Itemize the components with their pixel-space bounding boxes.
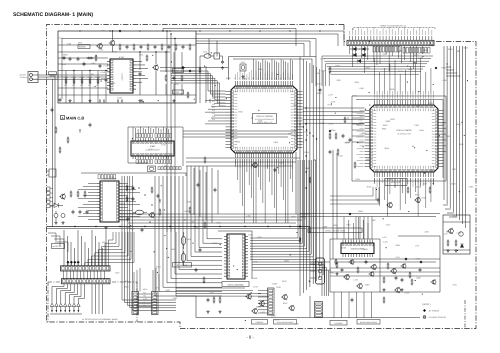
svg-text:P18: P18 [212, 115, 215, 118]
capacitor C115 [154, 45, 156, 47]
system controller IC201 (QFP) body [231, 86, 297, 153]
right bus corner into power section [443, 204, 448, 206]
svg-text:Q630: Q630 [464, 47, 469, 50]
svg-text:L478: L478 [328, 93, 332, 96]
electrolytic C502 [61, 214, 65, 218]
small connector at left border [49, 169, 56, 177]
svg-text:C645: C645 [452, 215, 457, 218]
svg-text:C304: C304 [352, 95, 357, 98]
svg-text:L127: L127 [191, 213, 195, 216]
flex connector CN702 [62, 279, 111, 284]
resistor R105 [97, 78, 99, 80]
ground [69, 99, 71, 101]
LCD driver IC401 body [131, 141, 174, 156]
bus verticals dropping from IC201 right [299, 57, 301, 296]
capacitor C114 [147, 44, 149, 46]
transistor Q609 [358, 284, 363, 289]
svg-text:D336: D336 [405, 292, 410, 295]
small part P21 [407, 187, 409, 189]
svg-text:D693: D693 [101, 29, 106, 32]
connector CN703 (vertical) [132, 292, 139, 315]
resistor R610 [336, 262, 338, 264]
svg-text:472: 472 [96, 84, 99, 87]
IC301 bottom pins [374, 172, 376, 177]
resistor R101 [65, 78, 67, 80]
capacitor C104 [139, 72, 141, 74]
small part P26 [383, 297, 385, 299]
svg-text:L470: L470 [155, 286, 159, 289]
svg-text:D268: D268 [226, 77, 231, 80]
capacitor C310 [342, 134, 344, 136]
part audio out 4 [132, 197, 134, 199]
main board boundary (dash-dot border) [47, 25, 477, 329]
IC201 top pin name labels [235, 74, 237, 80]
small part P28 [409, 272, 411, 274]
svg-text:C276: C276 [253, 286, 258, 289]
svg-text:C704: C704 [98, 48, 103, 51]
svg-text:D391: D391 [78, 42, 83, 45]
rails IC401 box to QFP2 bottom zone [186, 157, 300, 159]
svg-text:IC601 LA9200NM: IC601 LA9200NM [228, 283, 244, 286]
svg-text:R125: R125 [64, 76, 69, 79]
photo diode triangles in pickup [50, 303, 54, 306]
svg-text:R619: R619 [446, 231, 451, 234]
IC301 left pin name labels [360, 110, 364, 112]
diamond B+ marks [405, 258, 408, 261]
svg-text:R842: R842 [317, 92, 322, 95]
B+ rail wires bottom right [330, 258, 440, 260]
svg-text:Q123: Q123 [282, 280, 287, 283]
IC301 bottom pin labels [374, 178, 376, 182]
motor driver section bottom edge [196, 296, 420, 318]
svg-text:Q858: Q858 [292, 134, 297, 137]
IC401 bottom pins [132, 156, 134, 159]
ground [55, 221, 57, 223]
resistor R310 [329, 133, 331, 135]
wires audio to connector [63, 230, 65, 266]
wire verticals in tuner section [65, 71, 67, 104]
fan from mid area into CN701 [108, 232, 113, 266]
svg-text:P16: P16 [212, 109, 215, 112]
strong horizontal rail 2 [47, 228, 307, 230]
svg-text:Q455: Q455 [419, 129, 424, 132]
svg-text:R605: R605 [130, 227, 135, 230]
svg-text:L897: L897 [453, 283, 457, 286]
svg-text:C644: C644 [209, 292, 214, 295]
svg-text:D861: D861 [398, 50, 403, 53]
small part P19 [377, 198, 379, 200]
svg-text:X101: X101 [203, 51, 207, 54]
svg-text:SERVO / MOTOR DRIVE: SERVO / MOTOR DRIVE [325, 229, 346, 232]
svg-text:L842: L842 [124, 280, 128, 283]
motor section right edge [309, 296, 311, 318]
svg-text:R130: R130 [96, 76, 101, 79]
label box TP201 [173, 69, 184, 73]
CD DSP IC301 (QFP) body [370, 105, 438, 172]
small part P25 [309, 227, 311, 229]
main data bus sweep (right limb up to IC201) [250, 160, 298, 238]
svg-text:R882: R882 [320, 122, 325, 125]
servo part 6 [387, 263, 389, 265]
transistor Q611 [392, 269, 397, 274]
ground [401, 288, 403, 290]
svg-text:( NOTE ): ( NOTE ) [422, 303, 431, 306]
small part P14 [189, 207, 191, 209]
svg-text:C529: C529 [276, 286, 281, 289]
B+ power flag [299, 225, 302, 228]
svg-text:D703: D703 [271, 315, 276, 318]
B+ feed diamonds [67, 261, 70, 264]
part audio out 5 [144, 194, 145, 195]
small part P31 [199, 248, 201, 250]
capacitor C116 [161, 44, 163, 46]
IC201 bottom pins [235, 153, 237, 158]
diode D504 [362, 53, 365, 56]
bent wires QFP3 bottom to left [330, 187, 373, 196]
horizontal mid rails [120, 213, 310, 215]
svg-text:L472: L472 [253, 260, 257, 263]
capacitor C120 [189, 44, 191, 46]
small part P7 [319, 88, 321, 90]
svg-text:P17: P17 [212, 112, 215, 115]
weave rails between CN501 and IC301 [322, 55, 433, 57]
capacitor C110 [222, 60, 224, 62]
small part P27 [396, 288, 401, 293]
legend ground symbol [423, 316, 426, 319]
bus corner bottom-left [48, 233, 56, 243]
part audio out 8 [151, 204, 152, 205]
crystal X501 [136, 210, 144, 215]
svg-text:R792: R792 [80, 76, 85, 79]
IC301 left pins [365, 110, 371, 112]
servo right outline [380, 236, 440, 292]
small part P36 [79, 129, 80, 130]
audio section outline [81, 173, 186, 176]
svg-text:P11: P11 [212, 94, 215, 97]
svg-text:Q259: Q259 [279, 162, 284, 165]
small part P33 [203, 277, 205, 279]
drops from top rails to QFP2 box [208, 39, 210, 57]
IC602 top pins [342, 240, 344, 244]
svg-text:X201: X201 [241, 61, 245, 64]
B+ diamond on rail [182, 66, 185, 69]
svg-text:100: 100 [64, 84, 67, 87]
svg-text:L385: L385 [442, 79, 446, 82]
wire box around IC201 inner [233, 59, 312, 83]
svg-text:Q104: Q104 [156, 266, 161, 269]
ground [207, 310, 209, 312]
crystal X401 [148, 166, 156, 172]
small part P9 [349, 138, 351, 140]
transistor Q603 [247, 294, 252, 299]
main data bus sweep (right limb down) [252, 262, 322, 296]
B+ power flag [119, 30, 122, 33]
resistor R702 [455, 240, 457, 242]
wires pickup bottom rail [50, 313, 82, 315]
small part P5 [214, 188, 216, 190]
IC601 label box [222, 282, 249, 287]
svg-text:D531: D531 [294, 322, 299, 325]
label box loading motor [330, 321, 347, 326]
strong horizontal rail 1 [47, 226, 311, 228]
svg-text:D675: D675 [435, 134, 440, 137]
svg-text:L585: L585 [359, 87, 363, 90]
svg-text:D467: D467 [190, 220, 195, 223]
wire Q101 emitter [112, 46, 114, 52]
svg-text:D394: D394 [304, 151, 309, 154]
resistor R107 [146, 55, 148, 57]
small part P37 [89, 123, 91, 125]
servo part 5 [370, 272, 374, 276]
IC602 bottom pins [342, 254, 344, 258]
svg-text:Q563: Q563 [284, 260, 289, 263]
electrolytic C501 [54, 214, 58, 218]
part audio out 6 [151, 187, 153, 189]
svg-text:D511: D511 [102, 241, 106, 244]
wires CN703-CN704 [139, 293, 152, 295]
resistor array RA402 above IC401 [155, 134, 157, 138]
svg-text:Q569: Q569 [98, 213, 103, 216]
svg-text:R433: R433 [117, 97, 122, 100]
wire [139, 78, 141, 95]
LED D500 indicator [54, 203, 59, 208]
bus wire top rail 4 [196, 41, 310, 57]
svg-text:R599: R599 [63, 54, 68, 57]
svg-text:D234: D234 [355, 178, 360, 181]
part audio out 3 [126, 196, 128, 198]
svg-text:D895: D895 [423, 49, 428, 52]
svg-text:R669: R669 [305, 167, 310, 170]
resistor R109 [181, 75, 183, 77]
ground [219, 310, 221, 312]
svg-text:R376: R376 [338, 227, 343, 230]
svg-text:C128: C128 [67, 43, 72, 46]
capacitor C311 [329, 150, 331, 152]
wires left column verticals [52, 79, 54, 227]
wires jack [310, 263, 316, 265]
svg-text:D574: D574 [288, 132, 293, 135]
wires IC201 bottom into bus [235, 159, 237, 167]
capacitor C503 [72, 210, 74, 212]
small part P38 [55, 127, 57, 129]
small part P12 [274, 168, 276, 170]
small part P40 [59, 98, 61, 100]
transistor Q607 [290, 306, 295, 311]
svg-text:L304: L304 [246, 214, 250, 217]
svg-text:C726: C726 [418, 56, 423, 59]
resistor R611 [383, 277, 385, 279]
svg-text:D840: D840 [451, 183, 456, 186]
ground [62, 221, 64, 223]
svg-text:D857: D857 [371, 219, 376, 222]
label box spindle [252, 320, 268, 325]
svg-text:L679: L679 [356, 123, 360, 126]
transistor Q103 [98, 44, 103, 49]
ground [242, 75, 244, 77]
transistor Q604 [260, 301, 265, 306]
resistor array RA501 [373, 47, 375, 53]
svg-text:Q890: Q890 [363, 248, 368, 251]
wires connecting center to bottom-right [310, 261, 330, 263]
svg-text:D206: D206 [358, 210, 363, 213]
wires between CN701 and CN702 [63, 271, 65, 279]
svg-text:- 8 -: - 8 - [246, 335, 254, 340]
svg-text:R310: R310 [235, 141, 240, 144]
svg-text:Q448: Q448 [61, 63, 66, 66]
trimmer box [214, 53, 220, 59]
svg-text:C551: C551 [421, 197, 426, 200]
svg-text:R128: R128 [415, 257, 420, 260]
small part P10 [354, 162, 356, 164]
capacitor C111 [126, 45, 128, 47]
IC201 left pins [226, 91, 232, 93]
svg-text:R204: R204 [184, 210, 189, 213]
svg-text:CD SERVO / DSP: CD SERVO / DSP [397, 133, 412, 136]
svg-text:R247: R247 [346, 223, 351, 226]
verticals between IC401 and IC201 bottom [193, 168, 195, 214]
svg-text:R857: R857 [171, 248, 176, 251]
long vertical trunk x167 [166, 31, 168, 232]
bus wire from tuner to MCU [163, 29, 296, 47]
wires antenna into IC101 [58, 74, 107, 76]
servo part 10 [419, 268, 421, 270]
capacitor C113 [140, 45, 142, 47]
wire fan into pickup [52, 284, 64, 303]
power supply box [443, 215, 470, 254]
small part P24 [299, 237, 301, 239]
resistor R701 [447, 240, 449, 242]
small part P34 [59, 147, 61, 149]
svg-text:P14: P14 [212, 103, 215, 106]
board name label [A] MAIN C.B [61, 116, 65, 120]
main data bus sweep (outer lines) [122, 176, 176, 300]
svg-text:C806: C806 [416, 276, 421, 279]
capacitor C102 [69, 57, 71, 59]
bus wire top rail 1 [196, 31, 344, 46]
servo part 1 [341, 268, 343, 270]
svg-text:FM/AM: FM/AM [79, 46, 86, 49]
svg-text:L437: L437 [382, 236, 386, 239]
wires CN703 CN704 up to rails [133, 272, 135, 292]
svg-text:L485: L485 [91, 62, 95, 65]
svg-text:L126: L126 [163, 164, 167, 167]
svg-text:L606: L606 [166, 289, 170, 292]
connector CN602 (vertical) [315, 302, 323, 318]
svg-text:Q255: Q255 [459, 143, 464, 146]
section label act [308, 228, 362, 233]
svg-text:Q762: Q762 [329, 122, 334, 125]
AM antenna terminal J1 [28, 72, 38, 83]
small part P16 [159, 199, 160, 200]
wires from IC401 region to right [183, 130, 296, 132]
wire box around IC201 [229, 57, 317, 87]
svg-text:M402: M402 [143, 288, 148, 291]
resistor array RA404 below IC401 [155, 160, 157, 164]
svg-text:MAIN C.B: MAIN C.B [66, 115, 84, 120]
wire Q101 collector [112, 31, 114, 40]
capacitor C504 [79, 210, 81, 212]
svg-text:Q354: Q354 [365, 67, 370, 70]
wires IC201 left pins out [205, 99, 226, 101]
servo part 4 [365, 260, 367, 262]
small part P23 [429, 187, 431, 189]
capacitor C119 [182, 45, 184, 47]
wire from terminal to section [32, 74, 58, 76]
IC301 right pins [438, 110, 444, 112]
zener D701 [460, 244, 463, 247]
svg-text:L452: L452 [261, 311, 265, 314]
tuner/amp section outline box [58, 31, 196, 103]
headphone jack J601 [316, 258, 325, 284]
svg-text:L384: L384 [424, 230, 428, 233]
part audio out 2 [138, 187, 139, 188]
svg-text:L686: L686 [469, 185, 473, 188]
audio amp IC501 (DIP) body [100, 181, 119, 222]
transistor Q606 [283, 295, 288, 300]
IC201 inner pin number ring [235, 89, 237, 92]
small part P0 [199, 67, 201, 69]
small part P3 [204, 157, 206, 159]
main data bus sweep (left limb) [155, 176, 222, 296]
svg-text:R776: R776 [328, 104, 333, 107]
wires CN501 down to logic [349, 46, 351, 54]
small part P8 [344, 117, 346, 119]
wires IC401 top to bus [132, 127, 134, 138]
part audio out 0 [126, 185, 128, 187]
svg-text:R354: R354 [355, 81, 360, 84]
svg-text:R867: R867 [382, 128, 387, 131]
B+ power flag [435, 67, 438, 70]
label box MD301 [385, 179, 407, 186]
rails under IC601 to transistor cluster [176, 287, 245, 289]
servo part 3 [357, 267, 359, 269]
svg-text:C345: C345 [338, 154, 343, 157]
svg-text:C183: C183 [414, 124, 419, 127]
wire box around IC301 [352, 96, 446, 181]
svg-text:TP202: TP202 [174, 91, 180, 94]
svg-text:C725: C725 [234, 87, 239, 90]
resistor R501 [70, 191, 72, 193]
svg-text:R843: R843 [383, 124, 388, 127]
long verticals center-right [332, 150, 334, 259]
ground [447, 249, 449, 251]
capacitor C112 [133, 44, 135, 46]
board-to-board connector CN501 [347, 40, 434, 45]
svg-text:C369: C369 [323, 225, 328, 228]
transistor Q605 [253, 309, 258, 314]
ground [455, 249, 457, 251]
svg-text:IC101: IC101 [119, 56, 125, 59]
wires IC201 top pins to bus [253, 59, 255, 80]
svg-text:L174: L174 [441, 123, 445, 126]
svg-text:R704: R704 [88, 76, 93, 79]
small part P35 [67, 137, 69, 139]
capacitor C108 [99, 64, 101, 66]
wires from IC101 right pins [136, 61, 142, 63]
capacitor C601 [207, 298, 209, 300]
B+ power flag [329, 130, 332, 133]
IC201 bottom pin name labels [235, 159, 237, 164]
svg-text:Q232: Q232 [382, 53, 387, 56]
verticals near crystal area [199, 66, 201, 103]
junction dots top bus [162, 30, 163, 31]
resistor R312 [337, 149, 339, 151]
svg-text:C328: C328 [72, 76, 77, 79]
tracking coil driver ellipse Q602 [181, 253, 185, 261]
small part P4 [197, 183, 199, 185]
svg-text:D225: D225 [362, 132, 367, 135]
svg-text:: CHASSIS GND(FG): : CHASSIS GND(FG) [428, 316, 446, 319]
